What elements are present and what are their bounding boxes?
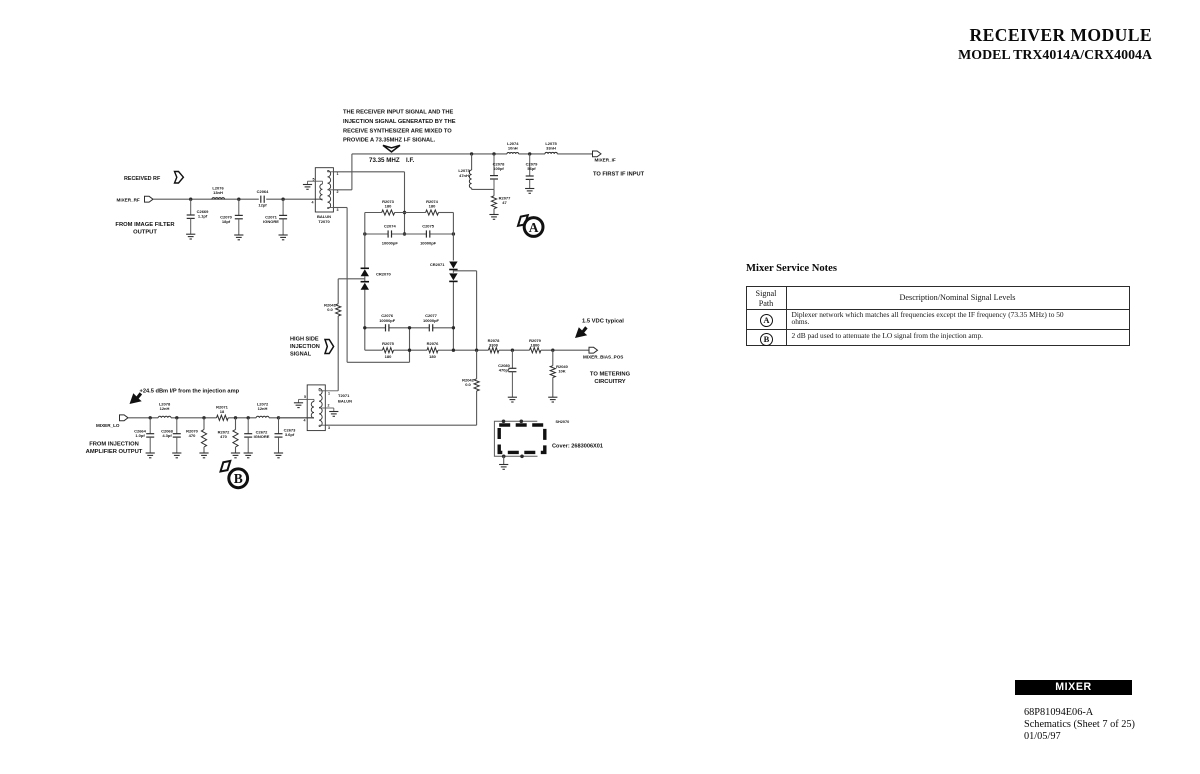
svg-text:T2070: T2070 bbox=[318, 219, 330, 224]
svg-text:12pf: 12pf bbox=[258, 203, 267, 208]
svg-text:47: 47 bbox=[502, 200, 507, 205]
svg-text:10000pF: 10000pF bbox=[379, 318, 396, 323]
title RECEIVER MODULE bbox=[652, 25, 1152, 64]
capacitor C2075 10000pF series bbox=[420, 224, 437, 246]
svg-text:FROM INJECTION: FROM INJECTION bbox=[89, 442, 139, 448]
svg-text:SH2070: SH2070 bbox=[556, 420, 570, 424]
svg-text:18: 18 bbox=[220, 409, 225, 414]
svg-text:3.6pf: 3.6pf bbox=[285, 432, 295, 437]
svg-text:180: 180 bbox=[385, 204, 392, 209]
capacitor C2074 10000pF series bbox=[382, 224, 399, 246]
svg-text:R2076: R2076 bbox=[427, 341, 440, 346]
svg-text:2: 2 bbox=[328, 404, 330, 408]
node junction at R2040 bbox=[551, 349, 554, 352]
svg-text:IGNORE: IGNORE bbox=[263, 219, 279, 224]
node junction bottom cap row left bbox=[363, 326, 366, 329]
node junction IF rail at L2073 bbox=[470, 152, 473, 155]
node shield pin top right bbox=[520, 420, 524, 424]
capacitor C2070 18pF shunt bbox=[220, 198, 243, 240]
node signal path flag B bbox=[221, 461, 248, 488]
resistor R2041 0.0 jumper bbox=[324, 303, 341, 317]
wire quad second row y=234 bbox=[365, 233, 454, 235]
annotation RECEIVED RF with hollow arrow bbox=[124, 172, 183, 184]
annotation receiver note paragraph bbox=[343, 110, 456, 144]
ground at shield bbox=[499, 456, 508, 469]
svg-text:R2075: R2075 bbox=[382, 341, 395, 346]
inductor L2074 10nH series bbox=[507, 141, 519, 154]
ground at T2071 pin 5 bbox=[294, 403, 303, 408]
resistor R2074 180 bbox=[426, 199, 439, 215]
capacitor C2068 4.3pF shunt to ground bbox=[161, 416, 181, 458]
node shield pin top left bbox=[502, 420, 506, 424]
capacitor C2672 IGNORE shunt to ground bbox=[244, 416, 270, 458]
wire quad bottom cap row y=327.8 bbox=[365, 327, 454, 329]
capacitor C2078 100pF shunt bbox=[490, 154, 505, 190]
node junction bottom resistor row mid bbox=[408, 349, 411, 352]
svg-text:18pf: 18pf bbox=[222, 219, 231, 224]
svg-text:13nH: 13nH bbox=[213, 190, 223, 195]
node MIXER_BIAS_POS output connector bbox=[583, 347, 623, 359]
svg-text:10nH: 10nH bbox=[508, 146, 518, 151]
resistor R2072 470 to ground bbox=[218, 416, 240, 458]
svg-text:TO METERING: TO METERING bbox=[590, 372, 631, 378]
resistor R2078 3300 series bbox=[488, 338, 501, 353]
svg-text:10K: 10K bbox=[558, 369, 565, 374]
svg-text:AMPLIFIER OUTPUT: AMPLIFIER OUTPUT bbox=[86, 449, 143, 455]
resistor R2070 470 to ground bbox=[186, 416, 208, 458]
inductor L2073 47nH shunt bbox=[458, 154, 471, 190]
capacitor C2080 470pF shunt to ground bbox=[498, 350, 517, 402]
wire T2070 pin3 riser x=347.1 bbox=[333, 208, 409, 363]
capacitor C2669 1.1pF shunt bbox=[186, 198, 209, 240]
annotation 1.5 VDC typical with filled arrow bbox=[575, 319, 624, 339]
svg-text:TO FIRST IF INPUT: TO FIRST IF INPUT bbox=[593, 172, 645, 178]
inductor L2072 12nH series bbox=[256, 402, 269, 418]
node junction x=476.6 y=350.2 bbox=[475, 349, 478, 352]
node junction IF rail at C2079 bbox=[528, 152, 531, 155]
svg-text:4.3pf: 4.3pf bbox=[162, 433, 172, 438]
svg-text:5: 5 bbox=[313, 178, 315, 182]
svg-text:10000pF: 10000pF bbox=[420, 241, 437, 246]
wire quad left vertical x=364.8 bbox=[364, 213, 366, 351]
svg-text:0.0: 0.0 bbox=[465, 382, 471, 387]
svg-text:OUTPUT: OUTPUT bbox=[133, 230, 157, 236]
svg-text:180: 180 bbox=[429, 354, 436, 359]
svg-text:1: 1 bbox=[328, 392, 330, 396]
wire CR2071 midpoint branch to R2042 bbox=[453, 271, 476, 350]
svg-text:56pf: 56pf bbox=[527, 166, 536, 171]
wire quad bottom resistor row y=350.2 bbox=[365, 349, 489, 351]
svg-text:100pf: 100pf bbox=[493, 166, 504, 171]
svg-text:INJECTION SIGNAL GENERATED BY: INJECTION SIGNAL GENERATED BY THE bbox=[343, 119, 456, 125]
wire RF input rail y=199 right of C2064 bbox=[266, 198, 322, 200]
wire LO rail into T2071 bbox=[279, 417, 315, 419]
svg-text:MIXER_RF: MIXER_RF bbox=[117, 198, 140, 203]
node junction bottom cap row mid bbox=[408, 326, 411, 329]
node shield pin bottom right bbox=[520, 455, 524, 459]
svg-text:180: 180 bbox=[429, 204, 436, 209]
annotation hollow down arrow bbox=[383, 145, 400, 152]
svg-text:RECEIVED RF: RECEIVED RF bbox=[124, 176, 161, 182]
svg-text:CR2070: CR2070 bbox=[376, 272, 391, 277]
svg-text:FROM IMAGE FILTER: FROM IMAGE FILTER bbox=[115, 222, 175, 228]
svg-text:C2074: C2074 bbox=[384, 224, 397, 229]
svg-text:THE RECEIVER INPUT SIGNAL AND: THE RECEIVER INPUT SIGNAL AND THE bbox=[343, 110, 453, 116]
svg-text:470: 470 bbox=[189, 433, 196, 438]
wire R2078 to R2079 bbox=[499, 349, 530, 351]
node signal path flag A bbox=[518, 215, 543, 236]
svg-text:10000pF: 10000pF bbox=[423, 318, 440, 323]
node junction at C2080 bbox=[511, 349, 514, 352]
svg-text:1.5 VDC typical: 1.5 VDC typical bbox=[582, 319, 624, 325]
annotation FROM INJECTION AMPLIFIER OUTPUT bbox=[86, 442, 143, 456]
svg-text:10000pF: 10000pF bbox=[382, 241, 399, 246]
annotation TO METERING CIRCUITRY bbox=[590, 372, 631, 386]
wire RF input rail y=199 left of C2064 bbox=[153, 198, 259, 200]
capacitor C2673 3.6pF shunt to ground bbox=[274, 416, 296, 458]
svg-text:I.F.: I.F. bbox=[406, 157, 415, 164]
svg-text:CIRCUITRY: CIRCUITRY bbox=[594, 379, 625, 385]
svg-text:PROVIDE A 73.35MHZ I-F SIGNAL.: PROVIDE A 73.35MHZ I-F SIGNAL. bbox=[343, 138, 436, 144]
svg-text:T2071: T2071 bbox=[338, 393, 350, 398]
svg-text:1.1pf: 1.1pf bbox=[198, 213, 208, 218]
svg-text:IGNORE: IGNORE bbox=[254, 434, 270, 439]
resistor R2075 180 bbox=[382, 341, 395, 359]
annotation FROM IMAGE FILTER OUTPUT bbox=[115, 222, 175, 236]
wire IF rail from L2075 to MIXER_IF connector bbox=[557, 153, 592, 155]
wire junction to R2042 bbox=[476, 350, 478, 379]
wire R2042 to LO return rail y=425.2 bbox=[325, 391, 476, 425]
wire LO rail y=417.8 segments bbox=[128, 417, 314, 419]
node junction bottom cap row right bbox=[452, 326, 455, 329]
svg-text:470pf: 470pf bbox=[499, 368, 510, 373]
svg-text:2: 2 bbox=[337, 190, 339, 194]
resistor R2079 1800 series bbox=[529, 338, 542, 353]
ground at T2071 pin 2 bbox=[329, 412, 338, 417]
svg-text:1800: 1800 bbox=[531, 342, 541, 347]
svg-text:+24.5 dBm I/P from the injecti: +24.5 dBm I/P from the injection amp bbox=[140, 389, 240, 395]
svg-text:MIXER_BIAS_POS: MIXER_BIAS_POS bbox=[583, 355, 623, 360]
svg-text:12nH: 12nH bbox=[160, 406, 170, 411]
svg-text:INJECTION: INJECTION bbox=[290, 344, 320, 350]
svg-text:BALUN: BALUN bbox=[338, 399, 352, 404]
annotation HIGH SIDE INJECTION SIGNAL with hollow arrow bbox=[290, 337, 334, 358]
node junction left end second row bbox=[363, 232, 366, 235]
svg-text:4: 4 bbox=[312, 201, 314, 205]
svg-text:Cover: 2683006X01: Cover: 2683006X01 bbox=[552, 444, 603, 450]
svg-text:SIGNAL: SIGNAL bbox=[290, 352, 312, 358]
svg-text:73.35 MHZ: 73.35 MHZ bbox=[369, 157, 400, 164]
diode CR2071 dual series pointing down bbox=[430, 262, 458, 282]
svg-text:C2064: C2064 bbox=[257, 189, 270, 194]
annotation 73.35 MHZ I.F. label bbox=[369, 157, 415, 164]
svg-text:0.0: 0.0 bbox=[327, 307, 333, 312]
node junction R2073/R2074 at 404.5,212.5 bbox=[403, 211, 406, 214]
wire R2079 to MIXER_BIAS_POS connector bbox=[541, 349, 589, 351]
annotation +24.5 dBm I/P from the injection amp with filled arrow bbox=[130, 389, 240, 405]
svg-text:1: 1 bbox=[337, 172, 339, 176]
capacitor C2071 IGNORE shunt bbox=[263, 198, 288, 240]
svg-text:HIGH SIDE: HIGH SIDE bbox=[290, 337, 319, 343]
svg-text:5: 5 bbox=[304, 395, 306, 399]
wire L2073 bottom to C2078 bottom y=189.4 bbox=[472, 188, 494, 190]
capacitor C2076 10000pF series bbox=[379, 313, 396, 331]
wire IF rail between L2074 and L2075 bbox=[519, 153, 545, 155]
inductor L2076 13nH series bbox=[212, 186, 225, 200]
node MIXER_RF input connector bbox=[145, 196, 154, 202]
inductor L2075 33nH series bbox=[545, 141, 557, 154]
svg-text:12nH: 12nH bbox=[258, 406, 268, 411]
svg-text:33nH: 33nH bbox=[546, 146, 556, 151]
wire R2041 to T2071 pin1 bbox=[337, 316, 339, 391]
capacitor C2077 10000pF series bbox=[423, 313, 440, 331]
svg-text:RECEIVE SYNTHESIZER ARE MIXED: RECEIVE SYNTHESIZER ARE MIXED TO bbox=[343, 128, 452, 134]
svg-text:MIXER_LO: MIXER_LO bbox=[96, 423, 120, 428]
svg-text:3: 3 bbox=[337, 208, 339, 212]
shield SH2070 cover outline bbox=[494, 420, 569, 457]
wire CR2070 midpoint branch to R2041 bbox=[338, 279, 365, 304]
resistor R2073 180 bbox=[382, 199, 395, 215]
node shield pin bottom left bbox=[502, 455, 506, 459]
node MIXER_LO input connector bbox=[96, 415, 128, 428]
svg-text:MIXER_IF: MIXER_IF bbox=[595, 158, 616, 163]
label MIXER block bbox=[1015, 680, 1131, 695]
svg-text:470: 470 bbox=[220, 434, 227, 439]
resistor R2077 47 to ground bbox=[489, 189, 511, 219]
svg-text:C2075: C2075 bbox=[422, 224, 435, 229]
wire quad right vertical x=453.4 bbox=[452, 213, 454, 351]
svg-text:A: A bbox=[529, 220, 539, 235]
ground at T2070 pin 5 bbox=[303, 185, 312, 190]
node junction bottom resistor row right bbox=[452, 349, 455, 352]
resistor R2076 180 bbox=[427, 341, 440, 359]
svg-text:3: 3 bbox=[328, 426, 330, 430]
svg-text:B: B bbox=[234, 471, 243, 486]
node junction C2074/C2075 at 404.5,234 bbox=[403, 232, 406, 235]
transformer T2071 balun bbox=[299, 385, 353, 431]
capacitor C2064 12pF series bbox=[257, 189, 270, 208]
wire quad top row y=212.5 bbox=[365, 212, 454, 214]
capacitor C2079 56pF shunt to ground bbox=[525, 154, 538, 193]
diode CR2070 dual series pointing up bbox=[361, 268, 392, 289]
node junction IF rail at C2078 bbox=[492, 152, 495, 155]
resistor R2071 18 series bbox=[216, 405, 229, 421]
node MIXER_IF output connector bbox=[593, 151, 616, 163]
transformer T2070 balun bbox=[308, 168, 339, 224]
svg-text:3300: 3300 bbox=[489, 342, 499, 347]
table title Mixer Service Notes bbox=[746, 263, 837, 274]
table Mixer Service Notes bbox=[746, 286, 1130, 346]
svg-text:47nH: 47nH bbox=[459, 173, 469, 178]
wire IF rail y=154 from T2070 pin2 riser to L2074 bbox=[333, 154, 507, 190]
svg-text:CR2071: CR2071 bbox=[430, 262, 445, 267]
resistor R2040 10K to ground bbox=[548, 350, 568, 402]
resistor R2042 0.0 jumper bbox=[462, 378, 479, 392]
capacitor C2664 1.0pF shunt to ground bbox=[134, 416, 155, 458]
svg-text:1.0pf: 1.0pf bbox=[135, 433, 145, 438]
footer part number block bbox=[1024, 707, 1135, 742]
svg-text:4: 4 bbox=[304, 419, 306, 423]
svg-text:180: 180 bbox=[385, 354, 392, 359]
inductor L2078 12nH series bbox=[158, 402, 171, 418]
wire T2070 pin1 to quad top node x=404.5 bbox=[333, 172, 404, 234]
node junction right end second row bbox=[452, 232, 455, 235]
